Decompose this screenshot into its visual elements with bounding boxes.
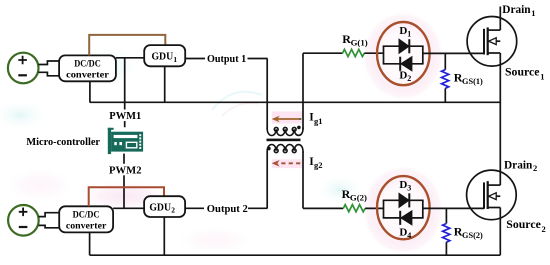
svg-text:Drain: Drain xyxy=(504,158,533,172)
wire Output 2 xyxy=(185,207,267,209)
svg-text:DC/DC: DC/DC xyxy=(74,60,101,70)
resistor RG1 xyxy=(343,49,365,56)
wire DC/DC2 right to GDU2 left xyxy=(113,207,144,209)
diode branch frame 2 xyxy=(383,200,385,218)
svg-text:converter: converter xyxy=(66,222,107,232)
transformer T1 dot secondary xyxy=(267,147,271,151)
wire drain 1 xyxy=(499,7,501,31)
label PWM2 xyxy=(107,164,143,176)
svg-text:2: 2 xyxy=(542,224,546,234)
svg-text:g1: g1 xyxy=(314,116,323,126)
wire gate 2 left xyxy=(303,207,343,209)
svg-text:D: D xyxy=(399,25,407,37)
label PWM1 xyxy=(108,110,143,122)
wire PWM1 vertical xyxy=(124,58,126,128)
svg-text:G(1): G(1) xyxy=(351,37,368,47)
resistor RGS2 xyxy=(445,208,447,223)
svg-text:1: 1 xyxy=(540,72,544,82)
svg-text:2: 2 xyxy=(171,206,175,215)
svg-text:Output 1: Output 1 xyxy=(207,54,246,65)
wire V2 to DC/DC 2 xyxy=(39,213,60,228)
wire brown DC/DC1 to GDU1 xyxy=(89,35,165,56)
resistor RGS1 xyxy=(444,53,446,69)
DC/DC converter 1 xyxy=(59,55,116,81)
transformer T1 primary winding xyxy=(267,128,303,136)
wire PWM2 vertical xyxy=(123,154,125,209)
wire DC/DC2 bottom lead xyxy=(89,232,91,255)
wire DC/DC1 bottom lead xyxy=(89,81,91,102)
wire RG2 to D3D4 xyxy=(365,207,383,209)
DC/DC converter 2 xyxy=(59,206,113,232)
svg-text:2: 2 xyxy=(407,74,411,83)
transformer T1 primary lead right xyxy=(302,53,304,129)
wire V1 to DC/DC 1 xyxy=(38,61,59,76)
svg-text:GDU: GDU xyxy=(151,51,173,62)
diode D2 xyxy=(401,57,412,71)
svg-text:DC/DC: DC/DC xyxy=(73,210,100,220)
svg-text:GDU: GDU xyxy=(149,202,171,213)
svg-text:Source: Source xyxy=(506,217,541,231)
diode D3 xyxy=(399,193,409,207)
svg-text:D: D xyxy=(399,226,407,238)
svg-text:converter: converter xyxy=(66,71,109,81)
diode pair ellipse 2 xyxy=(377,176,430,239)
wire GDU2 bottom lead xyxy=(163,217,165,255)
svg-text:Drain: Drain xyxy=(502,2,531,16)
svg-text:1: 1 xyxy=(531,8,535,18)
transformer T1 dot primary xyxy=(297,126,301,130)
diode branch frame 1 xyxy=(383,46,385,64)
svg-text:Output 2: Output 2 xyxy=(207,204,248,215)
svg-text:Micro-controller: Micro-controller xyxy=(26,137,100,148)
resistor RG2 xyxy=(343,205,365,212)
transformer T1 primary lead left xyxy=(266,59,268,130)
svg-text:PWM2: PWM2 xyxy=(109,165,142,176)
current arrow Ig1 xyxy=(272,116,302,123)
wire D1D2 to gate 1 xyxy=(423,52,484,54)
svg-text:D: D xyxy=(399,179,407,191)
wire red DC/DC2 to GDU2 xyxy=(89,187,164,206)
MOSFET Q2 xyxy=(467,170,517,220)
svg-text:GS(1): GS(1) xyxy=(462,77,483,86)
svg-text:GS(2): GS(2) xyxy=(462,231,483,240)
wire GDU1 bottom lead xyxy=(164,66,166,102)
GDU2 xyxy=(144,196,185,217)
transformer T1 secondary lead right xyxy=(302,152,304,209)
MOSFET Q1 xyxy=(467,17,517,67)
wire gate 1 left xyxy=(303,52,343,54)
bus bottom xyxy=(90,254,501,256)
transformer T1 secondary winding xyxy=(267,145,303,153)
wire source 1 to drain 2 xyxy=(499,53,501,185)
svg-text:1: 1 xyxy=(173,55,177,64)
transformer T1 secondary lead left xyxy=(266,152,268,209)
wire Output 1 xyxy=(185,58,267,60)
svg-text:PWM1: PWM1 xyxy=(109,111,141,122)
voltage source V2 xyxy=(8,205,39,236)
voltage source V1 xyxy=(8,53,39,84)
wire DC/DC1 right to GDU1 left xyxy=(116,57,144,59)
svg-text:1: 1 xyxy=(407,29,411,38)
svg-text:2: 2 xyxy=(533,163,537,173)
transformer T1 primary loops xyxy=(274,127,278,131)
svg-text:G(2): G(2) xyxy=(350,193,367,203)
wire source 2 xyxy=(499,208,501,256)
svg-text:Source: Source xyxy=(505,65,540,79)
diode pair ellipse 1 xyxy=(377,22,430,85)
svg-text:4: 4 xyxy=(407,231,411,240)
bus top xyxy=(90,101,501,103)
wire RG1 to D1D2 xyxy=(364,52,383,54)
micro-controller U1 xyxy=(108,128,143,154)
current arrow Ig2 xyxy=(272,160,301,167)
transformer T1 secondary loops xyxy=(274,149,278,153)
svg-text:3: 3 xyxy=(407,183,411,192)
diode D4 xyxy=(401,211,412,225)
svg-text:D: D xyxy=(399,69,407,81)
diode D1 xyxy=(399,39,409,53)
svg-text:g2: g2 xyxy=(314,160,323,170)
wire D3D4 to gate 2 xyxy=(423,207,484,209)
transformer T1 core xyxy=(267,139,301,142)
GDU1 xyxy=(144,45,185,66)
